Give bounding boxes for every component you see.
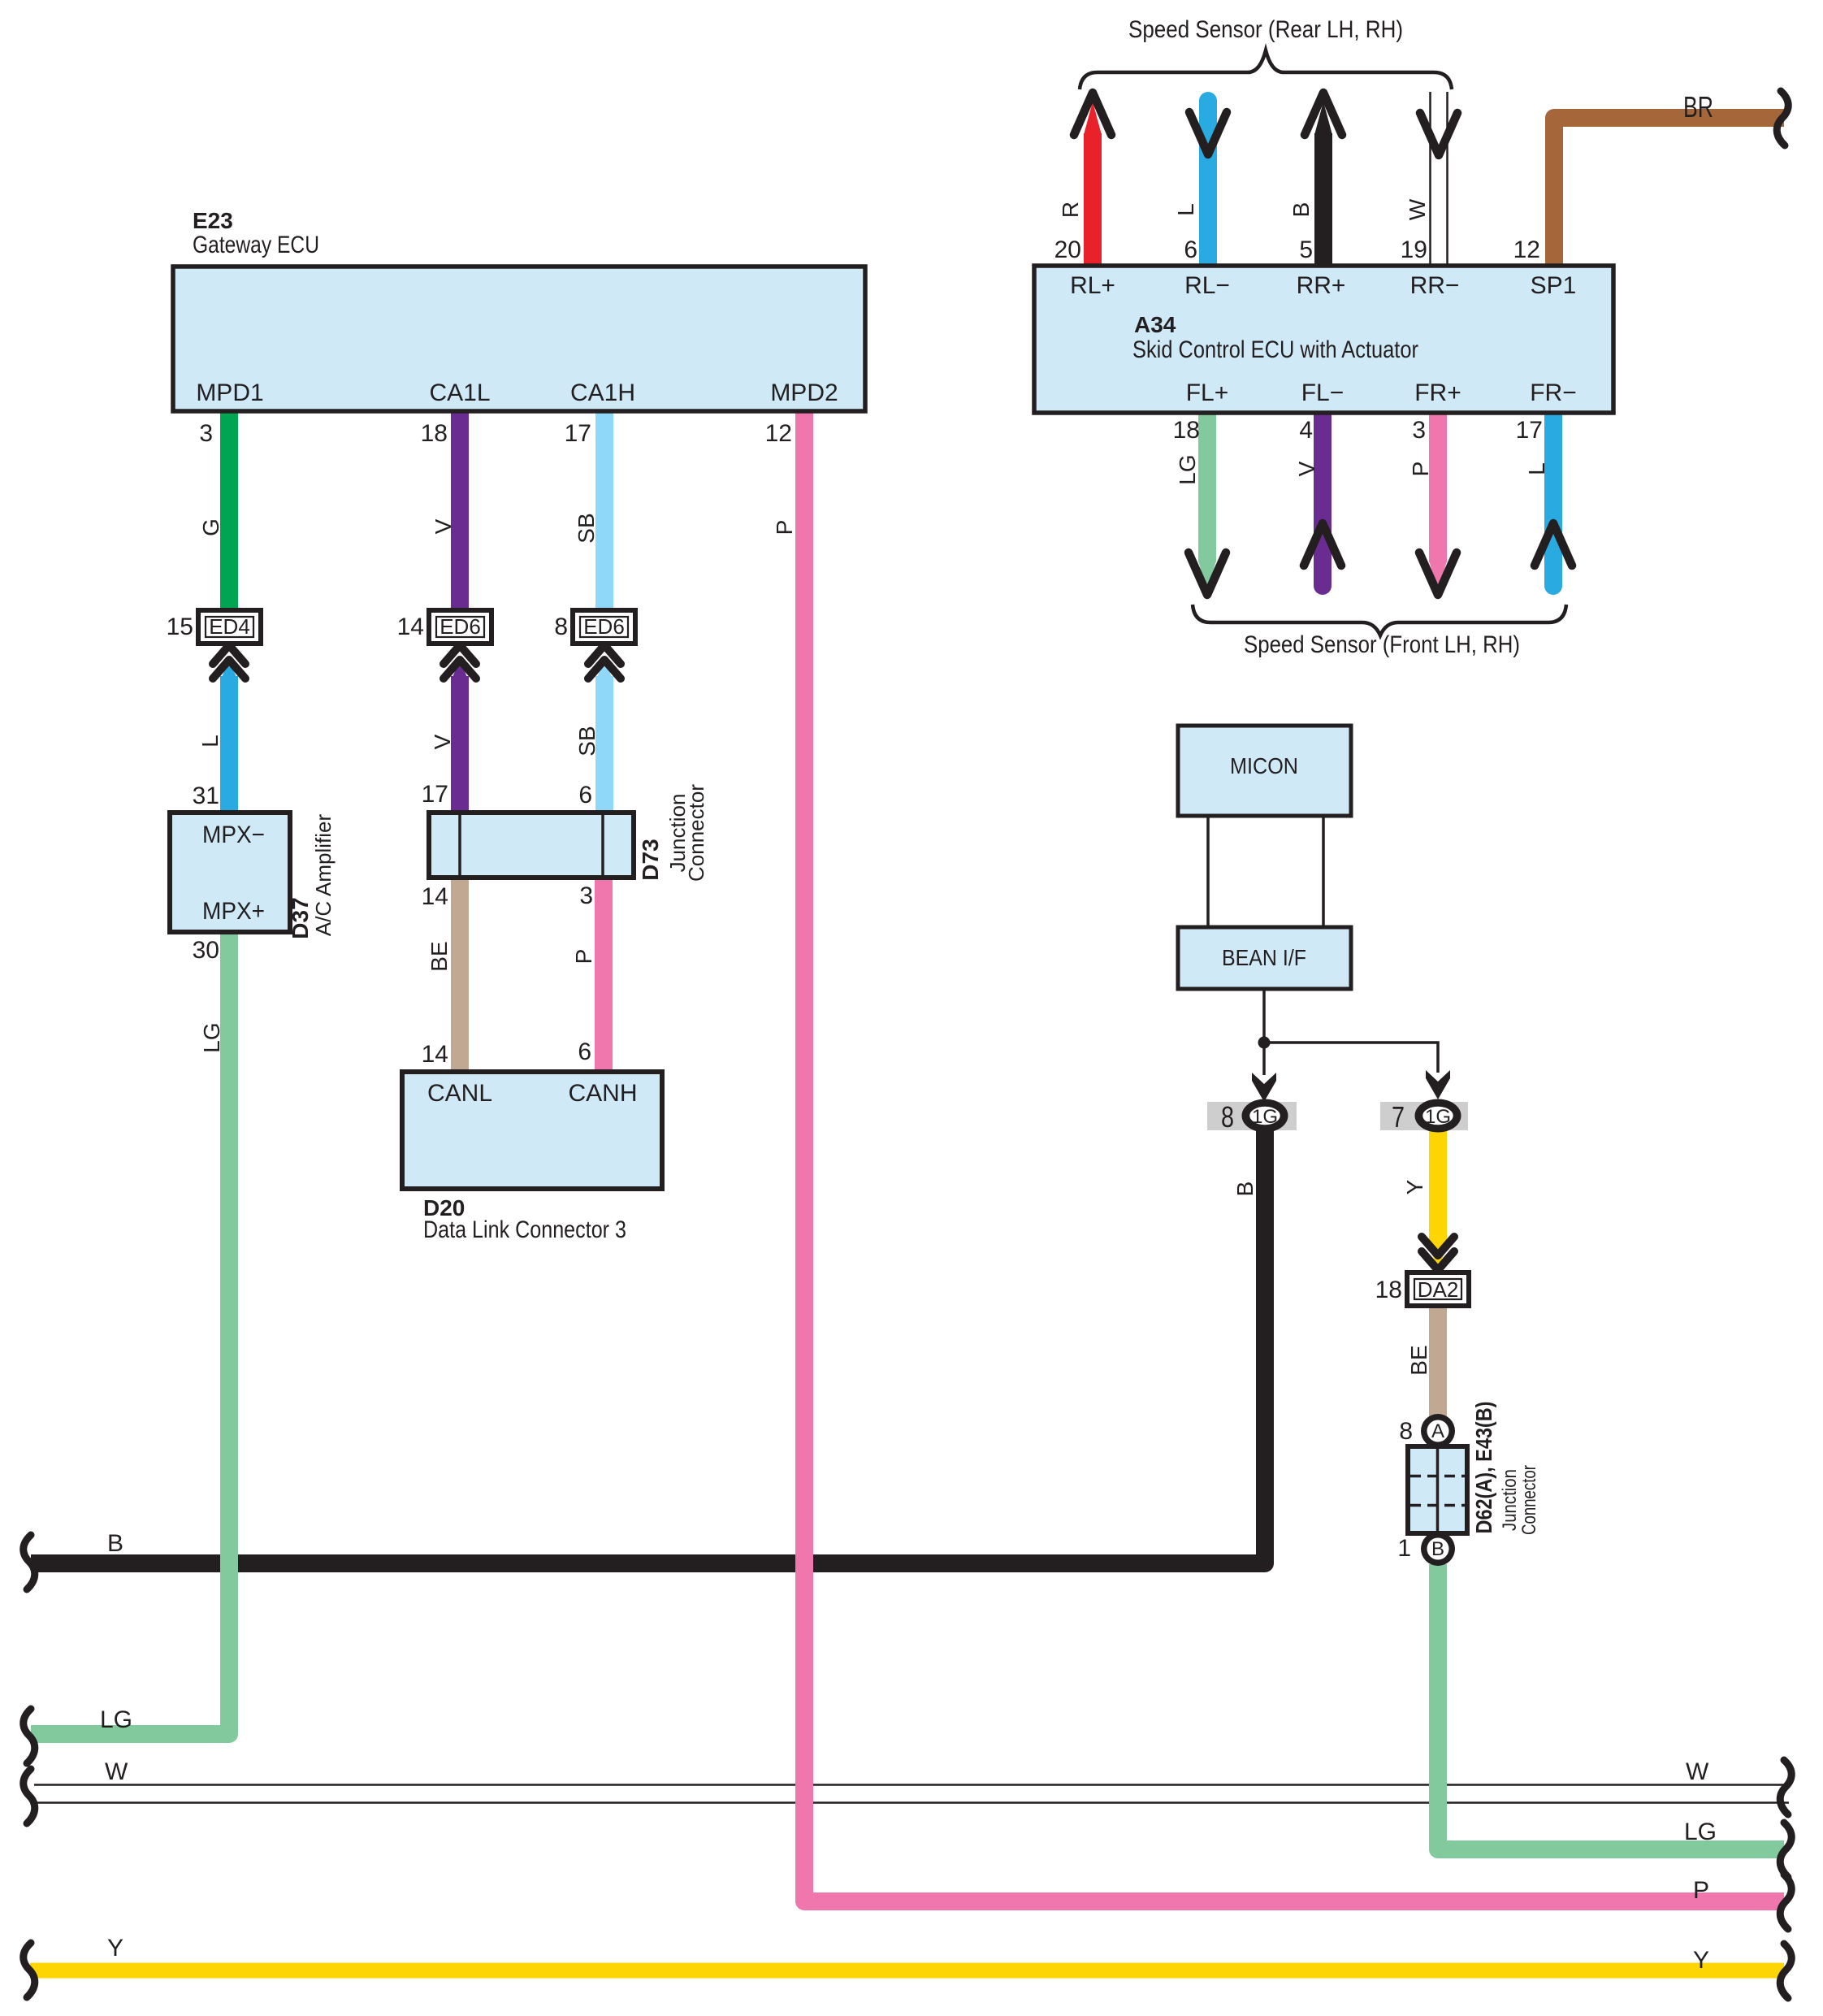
svg-text:FR+: FR+ [1414,379,1461,406]
wire link MICON to BEAN I/F (two lines) [1208,814,1323,928]
svg-text:17: 17 [422,781,448,808]
svg-text:Skid Control ECU with Actuator: Skid Control ECU with Actuator [1132,336,1418,363]
svg-text:3: 3 [579,882,593,909]
svg-text:1: 1 [1397,1535,1411,1562]
wire Y (1G no.7 to DA2 pin 18) [1429,1130,1447,1249]
svg-text:BR: BR [1683,90,1713,124]
svg-text:6: 6 [1184,236,1197,263]
svg-text:CA1L: CA1L [429,379,490,406]
svg-text:BE: BE [1406,1345,1431,1375]
svg-text:18: 18 [1375,1277,1402,1303]
svg-text:L: L [197,735,223,748]
wire BEAN I/F output net to 1G connectors [1264,988,1438,1075]
svg-text:14: 14 [422,1041,448,1068]
wire R (speed sensor rear to A34 pin 20, up arrow) [1084,102,1102,135]
svg-text:ED6: ED6 [440,614,481,639]
node A circle (D62 pin 8) [1421,1414,1455,1448]
svg-text:LG: LG [1175,454,1200,484]
box D73 Junction Connector [429,813,634,878]
svg-text:14: 14 [397,613,424,640]
svg-text:Speed Sensor (Rear LH, RH): Speed Sensor (Rear LH, RH) [1128,16,1403,43]
wire LG left (from D37 pin 30 down then left to edge) [31,931,229,1734]
svg-text:3: 3 [1412,417,1426,444]
svg-text:4: 4 [1299,417,1313,444]
svg-text:5: 5 [1299,236,1313,263]
wire P (from E23 MPD2 pin 12 down then right to edge) [804,410,1784,1901]
arrow into 1G no.7 [1426,1070,1450,1099]
wire BR (from A34 SP1 pin 12 up then right to edge) [1554,118,1784,267]
svg-text:RR−: RR− [1410,272,1460,299]
wire V upper (E23 CA1L pin 18 to ED6) [451,410,469,612]
node junction dot [1258,1037,1271,1049]
svg-text:P: P [571,949,596,965]
svg-text:Connector: Connector [1518,1465,1540,1535]
svg-text:P: P [1408,462,1433,477]
brace over rear speed sensor wires [1080,50,1452,89]
svg-text:B: B [1431,1538,1444,1560]
svg-text:BEAN I/F: BEAN I/F [1222,945,1306,970]
svg-text:FR−: FR− [1530,379,1577,406]
wire W horizontal (bottom, white wire double line) [34,1785,1789,1803]
svg-text:P: P [1693,1877,1709,1904]
svg-text:LG: LG [1684,1819,1717,1845]
connector ED6 (CA1H branch) [573,610,635,644]
svg-text:3: 3 [199,420,213,447]
svg-text:1G: 1G [1252,1106,1278,1128]
svg-text:Data Link Connector 3: Data Link Connector 3 [423,1216,626,1243]
svg-text:A/C Amplifier: A/C Amplifier [311,814,336,937]
cut squiggle left B [24,1535,35,1589]
cut squiggle left Y [24,1943,35,1997]
box E23 Gateway ECU [173,267,865,411]
node B circle (D62 pin 1) [1421,1532,1455,1566]
svg-text:17: 17 [565,420,591,447]
svg-text:30: 30 [193,937,219,964]
svg-text:A: A [1431,1420,1444,1442]
connector DA2 [1407,1272,1469,1306]
svg-text:CANL: CANL [427,1080,492,1107]
svg-text:L: L [1524,462,1549,475]
cut squiggle right Y [1780,1944,1791,1998]
wire BE (DA2 to D62 A circle pin 8) [1429,1305,1447,1416]
svg-text:8: 8 [554,613,568,640]
box D20 Data Link Connector 3 [402,1072,662,1189]
svg-text:MICON: MICON [1230,753,1298,778]
connector ED4 [198,610,261,644]
box MICON [1178,726,1351,816]
svg-text:ED4: ED4 [209,614,250,639]
wire G (E23 MPD1 pin 3 to ED4) [220,410,238,612]
chevrons below ED6 [444,645,476,679]
svg-text:D73: D73 [638,839,663,880]
svg-text:7: 7 [1392,1100,1405,1134]
svg-text:MPD1: MPD1 [196,379,263,406]
arrow into 1G no.8 [1252,1073,1276,1102]
svg-text:Connector: Connector [684,784,708,882]
svg-text:CA1H: CA1H [570,379,635,406]
svg-text:LG: LG [199,1022,224,1052]
wire Y horizontal (bottom yellow) [30,1963,1784,1979]
svg-text:G: G [198,518,223,536]
svg-text:W: W [1405,198,1430,220]
svg-text:SB: SB [574,513,599,543]
svg-text:E23: E23 [193,208,233,233]
svg-text:31: 31 [193,783,219,809]
wire V (speed sensor front to A34 pin 4 FL-, up arrow) [1314,412,1332,586]
wire LG right (from D62 B circle down then right to edge) [1438,1564,1784,1849]
svg-text:B: B [1232,1181,1258,1197]
box D62(A) E43(B) Junction Connector [1408,1446,1467,1533]
svg-text:V: V [431,518,456,534]
svg-text:FL−: FL− [1301,379,1345,406]
svg-text:L: L [1173,203,1198,216]
svg-text:8: 8 [1221,1100,1234,1134]
svg-text:V: V [430,734,455,749]
cut squiggle left LG [24,1709,35,1763]
cut squiggle right BR [1777,91,1788,145]
svg-text:B: B [1288,202,1314,218]
svg-text:6: 6 [578,1038,591,1065]
svg-text:12: 12 [765,420,792,447]
chevrons above DA2 [1422,1237,1454,1270]
brace under front speed sensor wires [1193,605,1566,635]
wire W (A34 pin 19 to speed sensor rear, down arrow, double thin line) [1431,92,1448,267]
wire SB upper (E23 CA1H pin 17 to ED6) [595,410,613,612]
cut squiggle right W [1780,1760,1791,1814]
svg-text:Gateway ECU: Gateway ECU [193,232,319,258]
svg-text:SB: SB [574,726,600,756]
svg-text:W: W [105,1758,128,1785]
svg-text:Y: Y [1693,1947,1709,1974]
svg-text:17: 17 [1516,417,1543,444]
wire L (A34 pin 6 to speed sensor rear, down arrow) [1199,101,1217,267]
cut squiggle left W [24,1769,35,1823]
svg-text:18: 18 [1173,417,1200,444]
wire V lower (ED6 to D73 pin 17) [451,660,469,681]
svg-text:RL+: RL+ [1070,272,1115,299]
svg-text:MPX−: MPX− [202,822,265,848]
svg-text:15: 15 [167,613,193,640]
wire B (speed sensor rear to A34 pin 5, up arrow) [1314,102,1332,135]
svg-text:CANH: CANH [568,1080,637,1107]
cut squiggle right LG [1780,1823,1791,1877]
svg-text:MPD2: MPD2 [770,379,838,406]
cut squiggle right P [1780,1875,1791,1929]
svg-text:Y: Y [107,1935,123,1962]
chevrons below ED4 [213,645,245,679]
connector 1G no.8 (grey band and oval) [1207,1102,1297,1130]
svg-text:D37: D37 [288,897,313,939]
svg-text:20: 20 [1054,236,1081,263]
wire P (D73 pin 3 to D20 pin 6) [595,876,613,1073]
wire BE (D73 pin 14 to D20 pin 14) [451,876,469,1073]
svg-text:8: 8 [1399,1418,1413,1445]
svg-text:RR+: RR+ [1297,272,1346,299]
connector 1G no.7 (grey band and oval) [1380,1102,1468,1130]
box BEAN I/F [1178,927,1351,989]
svg-text:R: R [1058,202,1083,218]
wire L blue (ED4 to D37 pin 31) [220,660,238,681]
wire B (black ground wire: vertical from 1G no.8 down, horizontal to left edge) [31,1131,1265,1563]
svg-text:W: W [1686,1758,1709,1785]
svg-text:RL−: RL− [1184,272,1230,299]
svg-text:SP1: SP1 [1531,272,1577,299]
svg-text:DA2: DA2 [1418,1277,1459,1302]
svg-text:Junction: Junction [1499,1469,1521,1531]
svg-text:18: 18 [421,420,448,447]
svg-text:12: 12 [1513,236,1540,263]
svg-text:1G: 1G [1425,1106,1451,1128]
svg-text:Y: Y [1402,1179,1427,1194]
svg-text:BE: BE [427,941,452,971]
svg-text:19: 19 [1401,236,1427,263]
svg-text:MPX+: MPX+ [202,898,265,925]
wire SB lower (ED6 to D73 pin 6) [595,660,613,681]
svg-text:FL+: FL+ [1186,379,1229,406]
connector ED6 (CA1L branch) [429,610,491,644]
box D37 A/C Amplifier [170,813,290,932]
svg-text:ED6: ED6 [583,614,625,639]
wire L (speed sensor front to A34 pin 17 FR-, up arrow) [1544,412,1562,586]
wire P (A34 pin 3 FR+ to speed sensor front, down arrow) [1429,412,1447,562]
svg-text:D62(A), E43(B): D62(A), E43(B) [1471,1402,1496,1534]
svg-text:B: B [107,1530,123,1557]
svg-text:A34: A34 [1134,312,1176,337]
svg-text:Speed Sensor (Front LH, RH): Speed Sensor (Front LH, RH) [1244,631,1520,658]
svg-text:V: V [1294,461,1319,476]
svg-text:P: P [772,520,797,535]
box A34 Skid Control ECU with Actuator [1034,266,1613,413]
wire LG (A34 pin 18 FL+ to speed sensor front, down arrow) [1198,412,1216,562]
svg-text:6: 6 [578,782,592,809]
svg-text:14: 14 [422,883,448,910]
chevrons below ED6 [588,645,621,679]
svg-text:LG: LG [100,1706,132,1733]
